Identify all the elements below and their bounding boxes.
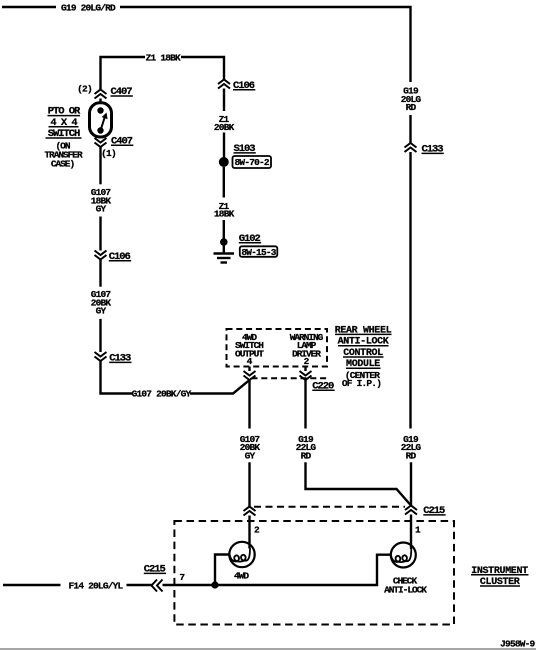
svg-text:8W-70-2: 8W-70-2 — [235, 157, 270, 168]
svg-text:4WD: 4WD — [234, 570, 249, 581]
svg-text:RD: RD — [406, 450, 417, 461]
svg-text:(1): (1) — [101, 148, 116, 159]
svg-text:G19 20LG/RD: G19 20LG/RD — [61, 3, 116, 14]
svg-text:CASE): CASE) — [51, 159, 75, 170]
svg-text:Z1 18BK: Z1 18BK — [146, 52, 181, 63]
svg-text:20BK: 20BK — [214, 122, 235, 133]
svg-text:OF I.P.): OF I.P.) — [342, 378, 381, 389]
svg-text:GY: GY — [96, 305, 107, 316]
svg-text:J958W-9: J958W-9 — [500, 639, 535, 650]
svg-text:F14 20LG/YL: F14 20LG/YL — [69, 581, 124, 592]
svg-text:RD: RD — [301, 450, 312, 461]
svg-text:(2): (2) — [77, 84, 92, 95]
svg-text:18BK: 18BK — [214, 209, 235, 220]
svg-text:GY: GY — [245, 450, 256, 461]
svg-text:8W-15-3: 8W-15-3 — [241, 247, 276, 258]
svg-text:GY: GY — [96, 204, 107, 215]
svg-text:ANTI-LOCK: ANTI-LOCK — [384, 585, 427, 596]
svg-text:G107 20BK/GY: G107 20BK/GY — [132, 389, 192, 400]
svg-text:RD: RD — [406, 102, 417, 113]
